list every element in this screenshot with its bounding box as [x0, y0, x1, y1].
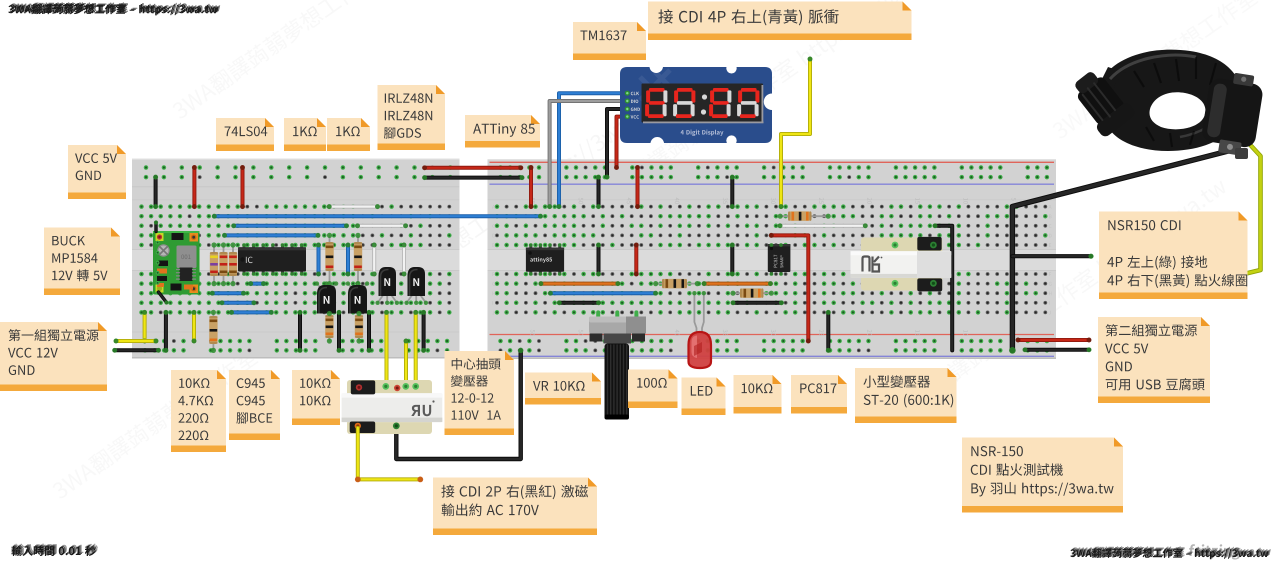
wire yellow CDI pulse to row A: [781, 59, 810, 207]
wire yellow transformer T1 to CDI 2P note: [358, 428, 421, 479]
resistor 220 leads: [232, 245, 234, 284]
wire red E-F jumper x636: [634, 245, 638, 274]
wire yellow from row J to transformer T1 pin (x386): [385, 312, 389, 385]
label note 100ohm: [628, 370, 678, 409]
wire white row C jumper: [358, 224, 406, 228]
wire white row A jumper: [329, 205, 377, 209]
label note project title: [962, 438, 1123, 513]
wire black row I (x733-781): [733, 301, 781, 305]
resistor 10K leads: [212, 312, 214, 350]
LED LED1 red: [694, 293, 696, 334]
wire orange row G (x704-771): [704, 282, 770, 286]
label note 1K: [284, 118, 326, 151]
resistor 1K leads: [329, 235, 331, 283]
wire yellow from bottom rail to transformer T1 pin (x406): [404, 341, 408, 386]
label note center-tap transformer: [445, 351, 515, 435]
label note 1K (2): [327, 118, 370, 151]
wire yellow row J to bottom rail (x144): [143, 312, 147, 341]
wire chartreuse ignition coil to CDI note: [1246, 143, 1261, 274]
footer-right text 3WA studio url: [1070, 548, 1268, 559]
wire black E-F jumper x598: [597, 245, 601, 274]
resistor 10K leads: [358, 314, 360, 342]
breadboard body: [488, 159, 1057, 359]
wire white cross-channel x406: [402, 245, 406, 274]
wire black E-F jumper x732: [730, 245, 734, 274]
wire blue row J: [232, 310, 272, 314]
wire black row J to bottom rail (x423): [422, 312, 426, 350]
wire black rail2 to row A (x598): [597, 177, 601, 207]
transistor Q3 body: [378, 294, 384, 303]
wire yellow row J to bottom rail (x194): [192, 312, 196, 341]
label note 10K: [734, 375, 782, 414]
wire blue row I: [222, 301, 254, 305]
breadboard body (left): [132, 159, 460, 359]
ignition coil photo (NSR150): [1066, 50, 1265, 159]
label note VCC5V GND: [68, 145, 126, 199]
wire black rail2 to row A left board: [154, 177, 158, 207]
label note IRLZ48N: [378, 85, 446, 150]
label note TM1637: [573, 22, 646, 60]
wire black bottom rail to GND note: [1025, 348, 1089, 352]
label note CDI 2P output: [433, 478, 597, 536]
wire black short row I (x559-599): [559, 301, 598, 305]
TM1637 pin pads and labels: [625, 91, 630, 96]
resistor 4.7K leads: [213, 245, 215, 284]
wire red rail1 to row A (x637): [636, 168, 640, 207]
power rail stripes: [490, 161, 1055, 163]
wire blue cross-channel x318: [317, 245, 321, 274]
IC U1 74LS04: [243, 244, 246, 249]
transistor Q4 body: [407, 294, 413, 303]
header text 3WA studio url: [8, 4, 217, 15]
transformer T2 logo: [863, 257, 880, 272]
wire blue row H: [212, 291, 243, 295]
TM1637 7-segment digits: [649, 88, 665, 92]
wire blue row H: [550, 291, 655, 295]
transformer T2 ST-20 600:1K: [861, 238, 942, 291]
wire white cross-channel x377: [372, 245, 376, 274]
label note CDI 4P pulse: [648, 2, 912, 41]
wire orange row G (x541-618): [541, 282, 618, 286]
resistor 10K leads: [328, 314, 330, 342]
wire blue row D: [225, 233, 319, 237]
IC U3 ATtiny85: [529, 244, 532, 249]
wire yellow 12V supply to bottom rail+: [116, 339, 156, 343]
label note first supply 12V: [0, 322, 107, 391]
wire black module stub bottom: [159, 292, 167, 303]
label note 74LS04: [216, 118, 274, 151]
wire black GND supply to bottom rail-: [115, 348, 159, 352]
label note ATtiny85: [465, 115, 540, 148]
transistor Q1 body: [317, 284, 323, 291]
wire red rail1 to row A (x242): [241, 168, 245, 207]
label note 10K 10K: [292, 370, 340, 425]
wire TM1637 DIO gray: [550, 101, 627, 207]
wire black row J to bottom rail (x300): [298, 312, 302, 350]
label note C945: [229, 370, 280, 440]
wire black row J to bottom rail (x166): [164, 312, 168, 350]
wire black bottom rail to transformer T1 (down-left): [396, 350, 520, 459]
wire yellow from row J to transformer T1 pin (x415): [414, 312, 418, 385]
wire red from row D to bottom rail: [771, 235, 808, 341]
wire TM1637 VCC red: [617, 117, 627, 168]
label note resistor values: [171, 370, 226, 452]
wire black rail2 to row A (x732): [730, 177, 734, 207]
wire red bottom rail to VCC5V note: [1018, 338, 1089, 342]
watermark fritzing: [1188, 544, 1241, 559]
footer-left text input time: [11, 546, 95, 556]
wire black row J to bottom rail (x828): [826, 312, 830, 350]
label note BUCK MP1584: [44, 228, 120, 296]
label note LED: [682, 378, 726, 416]
wire red rail jumper between boards: [425, 166, 521, 170]
wire blue row C: [234, 224, 347, 228]
wire red rail1 to row A (x531): [529, 168, 533, 207]
wire black row J to bottom rail (x369): [367, 312, 371, 350]
wire blue cross-channel x348: [346, 245, 350, 274]
wire blue long row B to right board: [214, 214, 540, 218]
wire black to CDI 4P ground note: [1012, 254, 1091, 258]
label note second supply 5V: [1098, 317, 1210, 403]
wire black from row C to bottom rail (transformer T2 side): [935, 226, 952, 351]
resistor 100 leads: [656, 283, 698, 285]
wire black row J to bottom rail (x339): [337, 312, 341, 350]
label note VR 10K: [525, 373, 601, 405]
buck converter module U2 MP1584: [153, 231, 200, 295]
resistor 220 leads: [223, 245, 225, 284]
potentiometer VR1 10K: [596, 312, 600, 318]
resistor 10K leads: [780, 215, 828, 217]
TM1637 caption: [681, 130, 724, 136]
label note small transformer ST-20: [855, 368, 957, 423]
wire TM1637 GND black: [607, 109, 627, 177]
wire black rail jumper between boards: [425, 176, 522, 180]
TM1637 display module: [620, 63, 772, 146]
wire black module stub top: [154, 223, 157, 232]
wire red rail1 to row A (x194): [192, 168, 196, 207]
wire TM1637 CLK blue: [559, 93, 627, 206]
label note NSR150 CDI pinout: [1099, 212, 1248, 300]
wire blue short row G: [251, 282, 264, 286]
wire white row C (x780-865): [780, 224, 865, 228]
transformer T1 UL logo: [411, 405, 431, 416]
transistor Q2 body: [348, 284, 354, 291]
optocoupler U4 PC817: [770, 244, 773, 249]
wire black thick from ignition coil to bottom rail: [1012, 149, 1238, 351]
resistor 1K leads: [357, 235, 359, 283]
transformer T1 center-tap 12-0-12: [347, 380, 432, 434]
label note PC817: [791, 375, 847, 414]
resistor 10K leads: [733, 292, 771, 294]
